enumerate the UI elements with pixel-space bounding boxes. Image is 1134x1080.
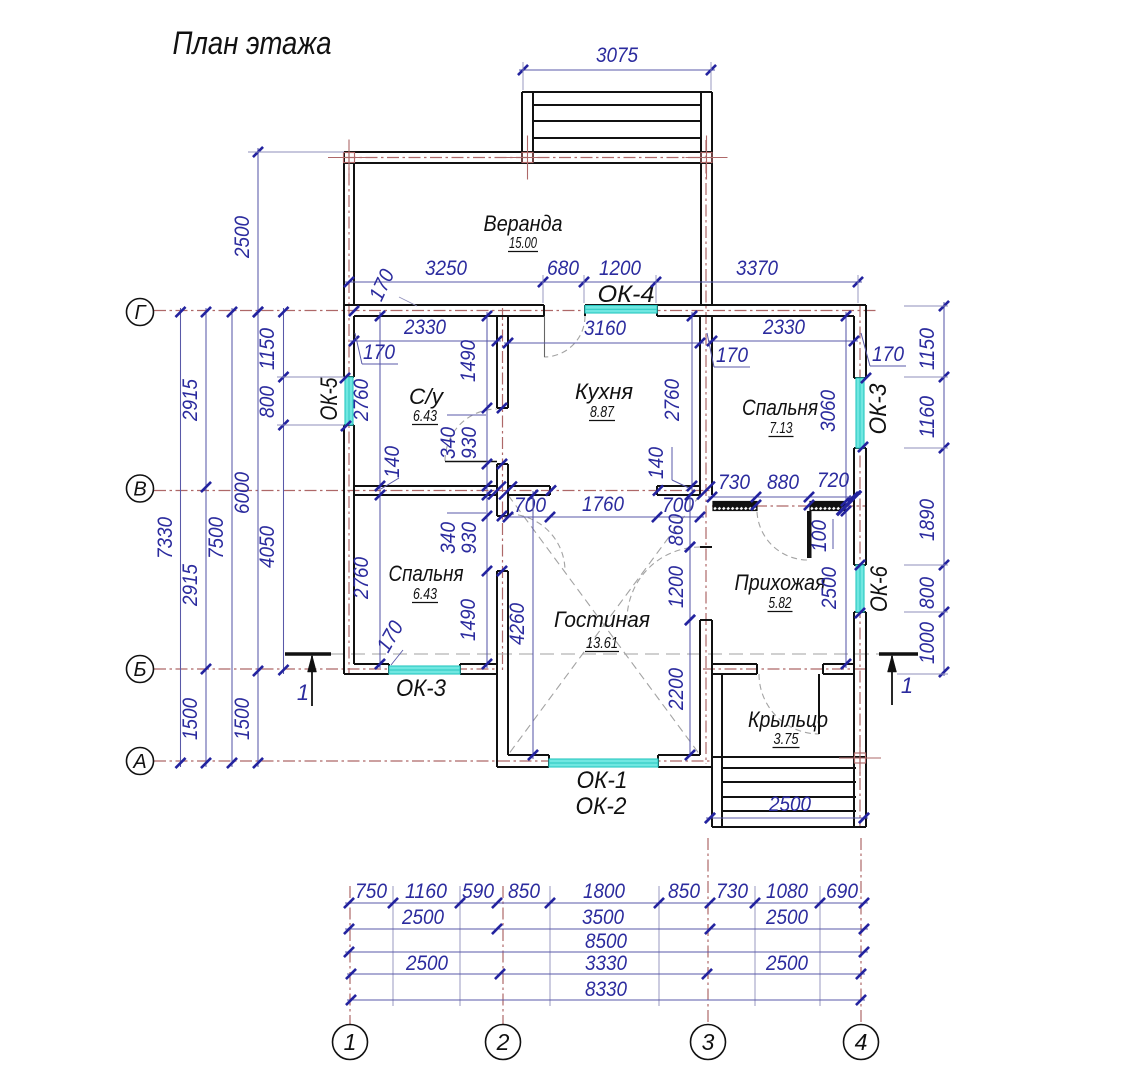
svg-text:1500: 1500 [231, 698, 254, 740]
axis circle 4 [844, 1025, 879, 1060]
closet wall centerline [712, 505, 866, 507]
svg-text:930: 930 [458, 427, 481, 459]
svg-text:2500: 2500 [231, 216, 254, 259]
window OK-3 bottom [389, 666, 460, 674]
svg-text:ОК-2: ОК-2 [576, 793, 627, 820]
svg-text:Кухня: Кухня [575, 379, 633, 404]
dimension chain top 3250/680/1200/3370 [345, 281, 862, 283]
svg-text:140: 140 [381, 446, 404, 478]
bottom extension lines [392, 886, 394, 1006]
left wall centerline axis 1 [348, 152, 350, 674]
svg-text:Крыльцо: Крыльцо [748, 707, 828, 732]
svg-text:1150: 1150 [916, 328, 939, 370]
porch stairs [712, 756, 866, 758]
svg-text:2500: 2500 [765, 952, 808, 975]
svg-text:1150: 1150 [256, 328, 279, 370]
dim chain 1490/930/340 bathroom wall [486, 312, 488, 490]
axis circle А [127, 748, 154, 775]
svg-text:850: 850 [668, 880, 700, 903]
left dim line 7330 [180, 308, 182, 767]
partition axis2 stub at B [496, 464, 498, 516]
red column marker veranda top-left [328, 157, 370, 159]
window OK-3 right [856, 378, 864, 448]
closet hatched wall 730 [713, 502, 757, 511]
red column marker stairs right [686, 157, 728, 159]
door arc closet [757, 512, 808, 560]
svg-text:100: 100 [808, 520, 831, 552]
living room cross diagonals [508, 495, 700, 755]
svg-text:ОК-4: ОК-4 [598, 281, 655, 308]
svg-text:15.00: 15.00 [509, 235, 537, 252]
svg-text:170: 170 [872, 343, 904, 366]
section mark 1 left [285, 652, 331, 655]
svg-text:1890: 1890 [916, 499, 939, 541]
svg-text:2: 2 [496, 1029, 510, 1055]
svg-text:7330: 7330 [154, 517, 177, 559]
svg-text:6000: 6000 [231, 472, 254, 514]
window OK-5 [345, 377, 353, 425]
door arc veranda-kitchen [544, 316, 585, 357]
dim 2760 kitchen [691, 312, 693, 490]
bottom dim row 2500/3330/2500 [347, 973, 865, 975]
section trace line 1-1 [330, 653, 879, 655]
wall axis3 kitchen-bedroom [699, 316, 701, 495]
door arc bathroom [445, 409, 497, 461]
dim 2200 wall [689, 618, 691, 757]
svg-text:7.13: 7.13 [770, 420, 793, 437]
axis line Б / bottom wall centerline [154, 668, 497, 670]
svg-text:Спальня: Спальня [742, 395, 818, 420]
left dim chain 2915/2915/1500 [205, 308, 207, 767]
svg-text:2330: 2330 [403, 316, 446, 339]
section mark 1 right [879, 652, 918, 655]
main top wall [344, 304, 544, 306]
svg-text:3370: 3370 [736, 257, 778, 280]
door arc porch [759, 674, 819, 734]
svg-text:730: 730 [718, 471, 750, 494]
svg-text:ОК-5: ОК-5 [316, 377, 343, 421]
living room bottom wall [508, 754, 549, 756]
svg-text:2200: 2200 [665, 668, 688, 711]
svg-text:690: 690 [826, 880, 858, 903]
svg-text:План этажа: План этажа [173, 25, 332, 61]
svg-text:1080: 1080 [766, 880, 808, 903]
svg-text:800: 800 [916, 577, 939, 609]
svg-text:8330: 8330 [585, 978, 627, 1001]
svg-text:6.43: 6.43 [413, 408, 437, 425]
window OK-4 [585, 306, 657, 314]
wall on axis Б left part [354, 663, 389, 665]
dim 3160 kitchen [504, 342, 704, 344]
right exterior wall [865, 305, 867, 378]
partition axis2 lower (bedroom/living) [496, 571, 498, 767]
bottom axis extensions to circles [349, 886, 351, 1024]
svg-text:2500: 2500 [405, 952, 448, 975]
door arc bedroom-left [508, 514, 565, 571]
right wall centerline axis 4 [859, 305, 861, 827]
svg-text:170: 170 [363, 341, 395, 364]
door arc living-hall [627, 547, 700, 620]
veranda right wall [700, 163, 702, 305]
dim 860 door [689, 493, 691, 549]
svg-text:1490: 1490 [457, 340, 480, 382]
svg-text:590: 590 [462, 880, 494, 903]
svg-text:3075: 3075 [596, 44, 638, 67]
svg-text:2760: 2760 [350, 557, 373, 600]
wall axis Б right part [712, 663, 757, 665]
svg-text:680: 680 [547, 257, 579, 280]
dim chain 730/880/720 hall closet [708, 496, 857, 498]
svg-text:3330: 3330 [585, 952, 627, 975]
dimension 2500 veranda left [257, 148, 259, 316]
dim chain 700/1760/700 at axis B [504, 516, 704, 518]
left dim line 7500 [231, 308, 233, 767]
svg-text:800: 800 [256, 386, 279, 418]
right dim chain 1150/1160/1890/800/1000 [943, 302, 945, 676]
partition axis2 upper (bathroom) [496, 316, 498, 408]
dim 2500 porch stairs [706, 817, 868, 819]
axis line В / middle wall centerline [154, 490, 712, 492]
svg-text:ОК-3: ОК-3 [396, 675, 447, 702]
bottom dim row 750/1160/590/850/1800/850/730/1080/690 [345, 902, 868, 904]
svg-text:1160: 1160 [405, 880, 447, 903]
svg-text:4: 4 [855, 1029, 868, 1055]
closet hatched wall 720 [810, 502, 845, 511]
axis 3 wall centerline [705, 140, 707, 764]
window OK-6 [856, 565, 864, 612]
dim 3060 bedroom right [845, 312, 847, 505]
svg-text:В: В [133, 479, 146, 501]
wall ticks [349, 306, 359, 316]
svg-text:2760: 2760 [661, 379, 684, 422]
svg-text:7500: 7500 [205, 517, 228, 559]
svg-text:140: 140 [645, 447, 668, 479]
svg-text:ОК-1: ОК-1 [577, 767, 628, 794]
svg-text:1: 1 [297, 680, 309, 705]
dim 2500 hall [845, 507, 847, 668]
axis circle 2 [486, 1025, 521, 1060]
svg-text:1200: 1200 [665, 566, 688, 608]
bottom dim row 2500/3500/2500 [345, 928, 868, 930]
veranda entrance stairs [522, 91, 712, 93]
axis circle 1 [333, 1025, 368, 1060]
svg-text:Спальня: Спальня [389, 561, 464, 586]
svg-text:1500: 1500 [179, 698, 202, 740]
svg-text:2915: 2915 [179, 564, 202, 607]
wall axis3 living-hall [700, 546, 712, 548]
svg-text:730: 730 [716, 880, 748, 903]
svg-text:4050: 4050 [256, 526, 279, 568]
svg-text:1000: 1000 [916, 622, 939, 664]
left exterior wall [343, 305, 345, 377]
svg-text:6.43: 6.43 [413, 586, 437, 603]
dim 4260 living room [532, 491, 534, 759]
axis circle В [127, 475, 154, 502]
axis circle 3 [691, 1025, 726, 1060]
left dim chain 6000/1500 [257, 308, 259, 767]
veranda left wall [343, 152, 345, 305]
svg-text:340: 340 [437, 427, 460, 459]
dimension 3075 stairs [519, 69, 715, 71]
svg-text:Б: Б [133, 659, 146, 681]
svg-text:С/у: С/у [409, 384, 445, 409]
closet door leaf 100 [807, 511, 812, 558]
red column marker porch right [839, 757, 881, 759]
svg-text:3160: 3160 [584, 317, 626, 340]
porch left wall [721, 674, 723, 757]
left dim chain 1150/800/4050 [283, 308, 285, 674]
svg-text:1160: 1160 [916, 396, 939, 438]
porch door leaf [818, 674, 820, 734]
svg-text:750: 750 [355, 880, 387, 903]
svg-text:2500: 2500 [765, 906, 808, 929]
svg-text:1200: 1200 [599, 257, 641, 280]
svg-text:Веранда: Веранда [484, 211, 563, 236]
svg-text:930: 930 [458, 522, 481, 554]
svg-text:13.61: 13.61 [586, 635, 618, 652]
veranda top wall [344, 151, 712, 153]
svg-text:3250: 3250 [425, 257, 467, 280]
svg-text:1490: 1490 [457, 599, 480, 641]
svg-text:2500: 2500 [768, 793, 811, 816]
svg-text:ОК-6: ОК-6 [866, 565, 893, 612]
dim chain 340/930/1490 bedroom left wall [486, 491, 488, 668]
svg-text:1: 1 [344, 1029, 357, 1055]
window OK-1 OK-2 [549, 759, 658, 767]
axis line А / living-room bottom wall centerline [154, 760, 712, 762]
svg-text:2330: 2330 [762, 316, 805, 339]
svg-text:4260: 4260 [506, 603, 529, 645]
bottom dim row 8330 [347, 999, 865, 1001]
red column marker stairs left [507, 157, 549, 159]
axis line Г / top wall centerline [154, 310, 877, 312]
dim 2330 bedroom right [708, 340, 858, 342]
svg-text:2760: 2760 [350, 379, 373, 422]
svg-text:880: 880 [767, 471, 799, 494]
svg-text:2500: 2500 [401, 906, 444, 929]
svg-text:8.87: 8.87 [590, 404, 615, 421]
svg-text:1: 1 [901, 673, 913, 698]
svg-text:3500: 3500 [582, 906, 624, 929]
svg-text:1760: 1760 [582, 493, 624, 516]
svg-text:1800: 1800 [583, 880, 625, 903]
svg-text:850: 850 [508, 880, 540, 903]
bottom dim row 8500 [345, 951, 868, 953]
svg-text:Гостиная: Гостиная [554, 607, 650, 632]
dim 1200 door [689, 545, 691, 622]
dim 2760 bathroom [379, 312, 381, 490]
dim 2760 bedroom left [379, 491, 381, 668]
wall on axis В [354, 485, 497, 487]
svg-text:720: 720 [817, 469, 849, 492]
dim 2330 bathroom [350, 340, 501, 342]
axis circle Г [127, 299, 154, 326]
svg-text:2915: 2915 [179, 379, 202, 422]
svg-text:3060: 3060 [817, 390, 840, 432]
svg-text:700: 700 [662, 494, 694, 517]
partition centerline axis 2 [502, 308, 504, 672]
svg-text:А: А [132, 751, 146, 773]
svg-text:Прихожая: Прихожая [735, 570, 826, 595]
svg-text:170: 170 [716, 344, 748, 367]
svg-text:8500: 8500 [585, 930, 627, 953]
svg-text:2500: 2500 [818, 567, 841, 610]
axis circle Б [127, 656, 154, 683]
veranda top wall centerline [344, 157, 712, 159]
svg-text:340: 340 [437, 522, 460, 554]
svg-text:3.75: 3.75 [774, 731, 799, 748]
svg-text:860: 860 [665, 514, 688, 546]
svg-text:ОК-3: ОК-3 [865, 383, 892, 435]
svg-text:3: 3 [702, 1029, 715, 1055]
svg-text:5.82: 5.82 [769, 595, 792, 612]
